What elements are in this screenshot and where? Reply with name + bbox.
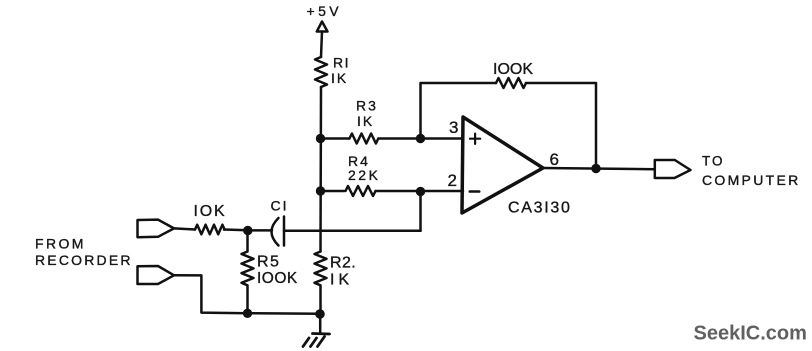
wire: rail to R4 (321, 190, 345, 193)
svg-text:R3: R3 (356, 98, 378, 114)
wire: ground stub (319, 314, 322, 334)
node: bias rail / R3 junction (316, 134, 325, 143)
node: R5 / ground wire junction (243, 309, 252, 318)
resistor R5 (242, 231, 254, 314)
svg-text:CA3I30: CA3I30 (508, 200, 572, 217)
svg-text:22K: 22K (348, 167, 380, 183)
svg-text:IOK: IOK (194, 203, 227, 220)
wire: feedback top run right and down to output (526, 83, 596, 169)
label R5 100K (257, 254, 298, 288)
wire: R1 down bias rail to R2 (crosses C1 wire without connection) (319, 87, 322, 252)
output connector to computer (655, 160, 691, 178)
svg-text:IOOK: IOOK (257, 270, 298, 287)
label R4 22K (348, 153, 380, 183)
svg-text:IK: IK (330, 272, 353, 289)
label R1 1K (331, 55, 350, 87)
svg-text:3: 3 (449, 118, 458, 137)
wire: lower connector to ground run (174, 275, 248, 313)
label 100K (493, 61, 533, 78)
wire: C1 right plate to riser (crosses bias rail) (284, 230, 421, 233)
op-amp minus input mark (470, 190, 479, 193)
+5V arrow symbol (317, 22, 328, 32)
resistor R1 (315, 57, 327, 87)
svg-text:TO: TO (702, 154, 725, 169)
svg-text:CI: CI (271, 198, 289, 214)
op-amp plus input mark (470, 134, 480, 144)
label C1 (271, 198, 289, 214)
svg-text:RECORDER: RECORDER (35, 252, 133, 268)
wire: R4 to pin 2 (376, 190, 464, 193)
node: C1 / R5 / 10K junction (243, 226, 252, 235)
svg-text:+5V: +5V (307, 3, 343, 19)
wire: op-amp output (543, 168, 655, 169)
capacitor C1 (272, 217, 285, 246)
wire: rail to R3 (321, 137, 350, 140)
svg-text:IOOK: IOOK (493, 61, 533, 78)
watermark SeekIC.com (694, 323, 807, 345)
svg-text:SeekIC.com: SeekIC.com (694, 323, 807, 345)
op-amp U1 CA3130 (462, 117, 543, 213)
svg-text:IK: IK (331, 70, 348, 86)
wire: upper connector to 10K (174, 228, 195, 229)
svg-text:6: 6 (550, 150, 559, 169)
svg-text:RI: RI (333, 55, 350, 71)
svg-text:R5: R5 (257, 254, 280, 271)
wire: +5V arrow to R1 (321, 32, 322, 58)
svg-text:R2.: R2. (330, 255, 356, 272)
resistor R3 (350, 134, 379, 144)
label R3 1K (356, 98, 378, 130)
label TO COMPUTER (702, 154, 801, 189)
node: ground junction (315, 309, 325, 319)
node: bias rail / R4 junction (316, 186, 325, 195)
resistor 100K feedback (496, 78, 526, 88)
label FROM RECORDER (35, 236, 133, 269)
label R2 1K (330, 255, 356, 289)
svg-text:COMPUTER: COMPUTER (702, 172, 801, 188)
label CA3130 (508, 200, 572, 217)
input connector upper (from recorder signal) (138, 220, 175, 238)
wire: R3 to pin 3 (379, 137, 463, 140)
resistor 10K (195, 225, 225, 235)
svg-text:FROM: FROM (35, 236, 86, 252)
pin 2 label (448, 171, 457, 190)
wire: feedback left riser and top run (421, 83, 497, 139)
ground symbol (303, 334, 330, 347)
resistor R4 (346, 186, 376, 196)
wire: riser up to pin 2 node (419, 192, 422, 231)
svg-text:2: 2 (448, 171, 457, 190)
svg-text:IK: IK (357, 113, 374, 129)
node: output / feedback junction (591, 164, 600, 173)
pin 6 label (550, 150, 559, 169)
pin 3 label (449, 118, 458, 137)
label 10K (194, 203, 227, 220)
+5V label (307, 3, 343, 19)
wire: node to C1 left plate (248, 229, 273, 232)
node: pin2 / C1 riser junction (416, 187, 425, 196)
input connector lower (from recorder return) (138, 266, 175, 284)
wire: 10K to C1 node (224, 228, 248, 231)
node: pin3 / feedback junction (416, 134, 425, 143)
wire: ground run to R2 bottom (248, 312, 321, 315)
resistor R2 (315, 252, 327, 315)
